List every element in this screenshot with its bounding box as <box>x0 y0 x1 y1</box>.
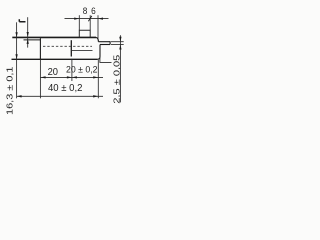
top dim left arrow <box>74 17 79 19</box>
left dim top arrow <box>15 32 17 37</box>
svg-text:20 ± 0,2: 20 ± 0,2 <box>66 64 98 75</box>
body right edge with rounded bottom corner <box>97 45 100 60</box>
tongue right end <box>109 41 111 44</box>
bottom dim right arrow <box>93 95 98 97</box>
top dimension line <box>65 18 109 20</box>
right dim bottom arrow <box>119 45 121 50</box>
extension line x40 lower <box>39 59 41 98</box>
fold radius to tongue top <box>96 37 98 41</box>
left dimension line 16,3 <box>16 22 18 98</box>
part top edge (thick sheet line) <box>12 36 96 38</box>
extension line x79 <box>78 15 80 30</box>
middle dimension line 20 / 20±0,2 <box>41 76 103 78</box>
right dim top arrow <box>119 37 121 42</box>
left dim bottom arrow <box>15 54 17 59</box>
svg-text:20: 20 <box>48 67 59 78</box>
thickness label glyph <box>19 19 25 22</box>
extension line x98.3 lower <box>97 60 99 99</box>
top dim middle slash <box>88 16 91 21</box>
tongue bottom edge <box>100 44 110 46</box>
body left step edge <box>39 38 41 59</box>
right dim ext stub top <box>111 41 124 43</box>
svg-text:6: 6 <box>91 5 96 16</box>
mid dim left arrow <box>41 76 46 78</box>
mid dim middle arrows <box>67 76 77 78</box>
svg-text:2,5 ± 0,05: 2,5 ± 0,05 <box>112 54 122 103</box>
extension line x90 <box>89 15 91 30</box>
bottom right stub edge <box>100 57 112 63</box>
part bottom edge <box>12 58 98 60</box>
inner line y50.4 <box>72 49 93 51</box>
mid dim right arrow <box>93 76 98 78</box>
tongue top edge <box>98 41 110 43</box>
svg-text:40 ± 0,2: 40 ± 0,2 <box>48 83 83 94</box>
thickness dim line <box>27 17 29 47</box>
top dim right arrow <box>98 17 103 19</box>
right dim ext stub bottom <box>111 44 124 46</box>
svg-text:8: 8 <box>83 5 88 16</box>
svg-text:16,3 ± 0,1: 16,3 ± 0,1 <box>5 66 15 115</box>
bottom dim left arrow <box>17 95 22 97</box>
right dimension line 2,5 <box>119 35 121 102</box>
thickness top arrow <box>27 32 29 37</box>
thickness bottom arrow <box>27 39 29 44</box>
plate bottom edge <box>24 39 41 41</box>
extension line x98 <box>97 15 99 39</box>
bottom dimension line 40 <box>17 95 103 97</box>
boss on top <box>79 30 90 37</box>
paper background <box>0 0 134 115</box>
middle vertical edge <box>70 40 72 56</box>
hidden line slot bottom <box>43 45 92 47</box>
extension line x71.9 lower <box>71 59 73 81</box>
